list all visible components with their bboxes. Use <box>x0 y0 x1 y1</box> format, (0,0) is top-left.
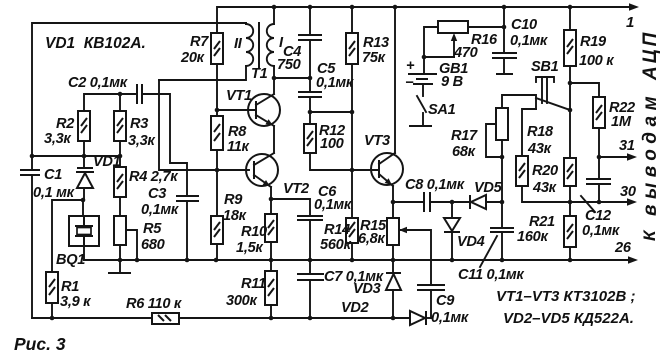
resistor R21 <box>569 202 571 216</box>
resistor R11 <box>265 271 277 305</box>
bottom rail continued <box>179 317 410 319</box>
svg-text:31: 31 <box>619 138 635 154</box>
wire C3 bottom to ground bus <box>186 201 188 260</box>
wire winding I bottom <box>274 66 310 78</box>
pin 31 output line <box>599 156 630 158</box>
ground bus (pin 26 rail) <box>84 259 631 261</box>
resistor R10 <box>265 214 277 242</box>
svg-text:VT3: VT3 <box>364 133 390 149</box>
wire VD1 bottom to R1 <box>52 200 83 272</box>
svg-text:R18: R18 <box>527 124 554 140</box>
wire winding II to VT2 base <box>159 80 249 170</box>
svg-text:0,1мк: 0,1мк <box>582 223 620 239</box>
svg-text:0,1мк: 0,1мк <box>141 202 179 218</box>
svg-text:C9: C9 <box>436 293 455 309</box>
svg-text:68к: 68к <box>452 144 476 160</box>
svg-text:0,1мк: 0,1мк <box>314 197 352 213</box>
resistor R6 <box>152 313 179 324</box>
svg-text:R19: R19 <box>580 34 607 50</box>
svg-text:680: 680 <box>141 237 165 253</box>
resistor R2 <box>78 111 90 141</box>
wire node C5/R13 <box>310 111 352 113</box>
capacitor C5 <box>298 91 322 93</box>
capacitor C1 <box>20 169 40 171</box>
svg-text:VT1–VT3 КТ3102В ;: VT1–VT3 КТ3102В ; <box>496 288 635 305</box>
trimmer resistor R17 <box>502 95 536 109</box>
svg-text:VD3: VD3 <box>353 281 381 297</box>
wire R5 wiper tap <box>126 230 137 260</box>
svg-text:ВQ1: ВQ1 <box>56 252 85 268</box>
quartz crystal BQ1 <box>82 200 84 216</box>
wire R3 bottom <box>119 141 121 156</box>
svg-text:160к: 160к <box>517 229 548 245</box>
leader line C11 label <box>480 236 497 267</box>
wire VT2 emitter node <box>270 187 272 214</box>
potentiometer R15 <box>387 218 399 245</box>
svg-text:1,5к: 1,5к <box>236 240 263 256</box>
svg-text:C12: C12 <box>585 208 611 224</box>
svg-text:II: II <box>234 36 243 52</box>
resistor R9 <box>211 216 223 244</box>
svg-text:0,1мк: 0,1мк <box>431 310 469 326</box>
resistor R8 <box>211 116 223 150</box>
svg-text:VD2: VD2 <box>341 300 369 316</box>
wire R4-R5 <box>119 197 121 216</box>
svg-text:К: К <box>640 229 659 241</box>
capacitor C12 <box>598 157 600 179</box>
svg-text:20к: 20к <box>180 50 205 66</box>
svg-text:R4 2,7к: R4 2,7к <box>129 169 178 185</box>
svg-text:+: + <box>406 58 415 74</box>
svg-text:470: 470 <box>453 45 478 61</box>
switch SA1 <box>417 96 426 112</box>
wire R3 top <box>119 94 121 111</box>
svg-text:R3: R3 <box>130 116 148 132</box>
wire BQ1 bottom to ground bus <box>83 246 85 260</box>
capacitor C11 <box>501 202 503 228</box>
svg-text:R7: R7 <box>190 34 209 50</box>
wire node line y156 <box>32 155 120 157</box>
svg-text:−: − <box>405 75 414 91</box>
wire R12 bottom to VT3 base <box>310 153 379 170</box>
wire R7 bottom / VT1 base <box>217 64 256 110</box>
capacitor C9 <box>417 284 445 286</box>
svg-text:100 к: 100 к <box>579 53 614 69</box>
svg-text:0,1мк: 0,1мк <box>510 33 548 49</box>
trimmer resistor R5 <box>114 216 126 245</box>
ground symbol under R4/R5 <box>119 260 121 273</box>
svg-text:750: 750 <box>277 57 301 73</box>
resistor R4 <box>114 167 126 197</box>
diode VD5 <box>469 195 471 209</box>
push button SB1 <box>536 76 554 78</box>
transformer T1 winding II <box>246 24 253 66</box>
svg-text:1: 1 <box>626 14 634 31</box>
wire varicap control line (top left) <box>32 23 246 170</box>
svg-text:АЦП: АЦП <box>640 30 661 81</box>
resistor R7 <box>211 33 223 64</box>
resistor R13 <box>351 7 353 33</box>
resistor R3 <box>114 111 126 141</box>
wire R2 top <box>84 94 137 111</box>
svg-text:9 В: 9 В <box>441 74 463 90</box>
transformer T1 winding I <box>267 24 274 66</box>
potentiometer R16 <box>438 21 468 33</box>
svg-text:560к: 560к <box>320 237 351 253</box>
svg-text:R21: R21 <box>529 214 555 230</box>
wire top supply bus to pin 1 <box>217 7 632 33</box>
diode VD2 <box>410 311 425 325</box>
battery GB1 <box>423 57 425 74</box>
svg-text:0,1 мк: 0,1 мк <box>33 185 75 201</box>
wire R8 bottom <box>216 150 218 170</box>
pin 1 arrowhead <box>629 3 639 11</box>
bottom rail <box>32 317 152 319</box>
svg-text:C3: C3 <box>148 186 166 202</box>
svg-text:выводам: выводам <box>640 91 661 216</box>
svg-text:C1: C1 <box>44 167 62 183</box>
svg-text:VD1: VD1 <box>93 154 121 170</box>
capacitor C4 <box>309 7 311 35</box>
svg-text:VT2: VT2 <box>283 181 309 197</box>
svg-text:VT1: VT1 <box>226 88 252 104</box>
svg-text:0,1мк: 0,1мк <box>316 75 354 91</box>
diode VD4 <box>451 202 453 218</box>
svg-text:R17: R17 <box>451 128 478 144</box>
svg-text:R13: R13 <box>363 35 389 51</box>
wire VT1 emitter to VT2 collector <box>273 126 275 153</box>
wire R15 wiper to C9 <box>400 230 431 285</box>
wire R2 bottom <box>83 141 85 156</box>
svg-text:75к: 75к <box>362 50 386 66</box>
resistor R12 <box>304 124 316 153</box>
wire left column below C1 to bottom rail <box>31 175 33 318</box>
svg-text:30: 30 <box>620 184 636 200</box>
leader line C12 label <box>581 196 595 212</box>
diode VD3 <box>392 260 394 273</box>
svg-text:T1: T1 <box>251 66 268 82</box>
resistor R22 <box>570 83 599 97</box>
wire R1 bottom <box>51 303 53 318</box>
svg-text:11к: 11к <box>227 139 250 155</box>
svg-text:R9: R9 <box>224 192 243 208</box>
wire winding II bottom <box>159 66 246 80</box>
svg-text:R5: R5 <box>143 221 162 237</box>
svg-text:C2 0,1мк: C2 0,1мк <box>68 75 128 91</box>
capacitor C6 <box>271 199 310 216</box>
resistor R18 <box>522 109 536 156</box>
wire winding I top to bus <box>273 7 275 24</box>
svg-text:18к: 18к <box>223 208 247 224</box>
svg-text:VD4: VD4 <box>457 234 485 250</box>
svg-text:SA1: SA1 <box>428 102 456 118</box>
wire VT3 emitter node <box>392 186 394 218</box>
transistor VT3 <box>371 153 403 185</box>
wire C2 right to C3 <box>142 94 187 196</box>
varicap VD1 <box>77 167 93 169</box>
capacitor C2 <box>136 84 138 104</box>
svg-text:3,9 к: 3,9 к <box>60 294 91 310</box>
svg-text:VD1 КВ102А.: VD1 КВ102А. <box>45 35 146 52</box>
resistor R19 <box>569 7 571 30</box>
svg-text:R20: R20 <box>532 163 558 179</box>
svg-text:R8: R8 <box>228 124 247 140</box>
resistor R1 <box>46 272 58 303</box>
svg-text:R6 110 к: R6 110 к <box>126 296 182 312</box>
svg-text:R10: R10 <box>241 224 267 240</box>
svg-text:6,8к: 6,8к <box>358 231 385 247</box>
svg-text:R2: R2 <box>56 116 74 132</box>
resistor R20 <box>564 158 576 186</box>
pin 30 output line <box>393 201 424 203</box>
transistor VT2 <box>246 154 278 186</box>
svg-text:VD2–VD5 КД522А.: VD2–VD5 КД522А. <box>503 310 634 327</box>
node dots on top bus <box>272 5 277 10</box>
svg-text:43к: 43к <box>532 180 557 196</box>
svg-text:SB1: SB1 <box>531 59 559 75</box>
capacitor C8 <box>423 192 425 212</box>
resistor R14 <box>346 218 358 243</box>
svg-text:3,3к: 3,3к <box>44 131 71 147</box>
svg-text:R1: R1 <box>61 279 79 295</box>
svg-text:R14: R14 <box>324 222 350 238</box>
svg-text:3,3к: 3,3к <box>128 133 155 149</box>
svg-text:100: 100 <box>320 136 344 152</box>
svg-text:Рис. 3: Рис. 3 <box>14 334 66 354</box>
svg-text:43к: 43к <box>527 141 552 157</box>
svg-text:C10: C10 <box>511 17 537 33</box>
transistor VT1 <box>248 94 280 126</box>
svg-text:300к: 300к <box>226 293 257 309</box>
wire R13 bottom through node to R14 <box>351 64 353 218</box>
svg-text:C8 0,1мк: C8 0,1мк <box>405 177 465 193</box>
svg-text:C11 0,1мк: C11 0,1мк <box>458 267 524 283</box>
capacitor C3 <box>176 195 199 197</box>
capacitor C7 <box>309 260 311 274</box>
capacitor C10 <box>503 7 505 53</box>
svg-text:26: 26 <box>614 240 632 256</box>
transformer T1 core <box>258 22 260 68</box>
svg-text:VD5: VD5 <box>474 180 503 196</box>
svg-text:R11: R11 <box>241 276 266 292</box>
svg-text:1М: 1М <box>611 114 632 130</box>
